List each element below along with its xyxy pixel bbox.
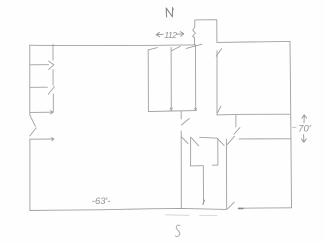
door swing stair east bottom	[217, 106, 221, 113]
wall interior east-west lower (east part)	[239, 138, 290, 140]
wall bath south (east segment)	[212, 164, 218, 166]
dimension tick left of 70	[292, 126, 296, 128]
wall exterior west (lower)	[29, 139, 31, 211]
label S compass	[175, 225, 180, 237]
wall closet column east side (lower segment)	[52, 94, 54, 112]
door swing lower wall west leaf	[217, 138, 224, 145]
wall bath south (west segment)	[190, 165, 203, 167]
arrow closet divider 3	[50, 111, 53, 114]
arrow closet divider 1	[49, 61, 54, 70]
wall bath west	[190, 137, 192, 166]
wall exterior north (west part)	[30, 44, 195, 47]
door tick divider bottom	[203, 200, 205, 204]
door swing stair east top	[216, 49, 222, 57]
door swing stub	[234, 128, 240, 134]
wall closet column east side (middle segment)	[52, 70, 54, 86]
dimension arrow west (112)	[156, 32, 163, 37]
wall middle room east	[195, 45, 197, 110]
door swing closet 2	[48, 87, 54, 95]
wall stub below upper wall	[235, 116, 237, 127]
wall closet divider 1	[30, 64, 49, 66]
door swing west entry upper leaf	[30, 115, 36, 126]
door threshold dash south wall	[239, 207, 243, 209]
wall interior vertical center-south	[225, 139, 227, 209]
wall interior west vertical main	[180, 131, 182, 209]
door swing south wall exit	[228, 202, 235, 209]
wall interior east-west upper	[217, 113, 290, 116]
wall middle room south	[148, 111, 196, 112]
svg-text:70′: 70′	[298, 124, 312, 135]
wall interior stair east	[216, 51, 218, 115]
door swing bath doorway west leaf	[182, 137, 189, 144]
door swing middle room divider	[171, 46, 180, 51]
wall hall divider	[30, 138, 54, 140]
door swing west entry lower leaf	[30, 128, 36, 136]
wall exterior north (east part)	[217, 41, 290, 42]
door swing interior west	[181, 119, 189, 126]
door swing lower wall east leaf	[227, 136, 234, 144]
wall exterior south (west part)	[30, 208, 227, 210]
wall exterior east	[290, 41, 292, 207]
wall exterior west (upper)	[29, 45, 31, 115]
arrow hall divider	[52, 138, 54, 141]
label N compass	[166, 8, 173, 18]
wall stair bump-out (north projection)	[193, 20, 217, 45]
svg-text:112: 112	[164, 30, 177, 40]
wall closet column east side (upper segment)	[52, 44, 54, 60]
arrow tick divider bottom	[170, 108, 172, 111]
door swing bath doorway east leaf	[191, 138, 198, 146]
wall interior east-west lower (middle part)	[200, 136, 218, 139]
wall closet divider 3	[30, 111, 53, 113]
arrow tick east wall bottom	[194, 108, 196, 110]
wall interior west vertical stub	[180, 112, 182, 119]
wall exterior south (east part)	[243, 207, 292, 209]
door swing middle room west	[148, 48, 157, 50]
stray pencil line south middle	[165, 214, 217, 217]
wall middle room west	[147, 50, 149, 112]
wall middle room divider	[170, 48, 172, 111]
dimension arrow east (112)	[176, 32, 183, 37]
dimension arrow up (70)	[302, 115, 307, 123]
svg-text:-63′-: -63′-	[92, 196, 111, 207]
dimension arrow down (70)	[301, 135, 306, 143]
door swing north wall opening	[186, 44, 202, 48]
wall closet divider 2	[30, 86, 48, 88]
wall bath east	[217, 138, 219, 165]
wall divider below bath	[202, 166, 204, 205]
